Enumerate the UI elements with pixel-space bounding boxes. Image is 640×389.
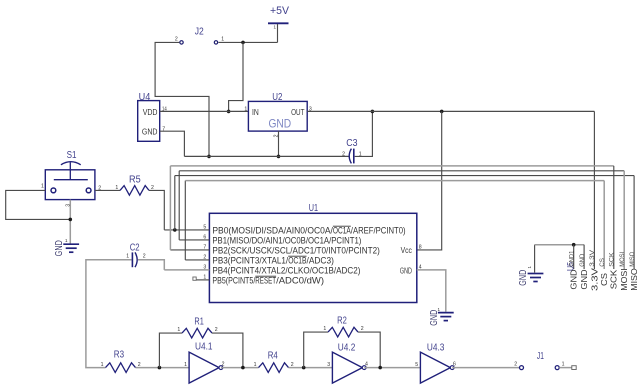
U1 right pin names Vcc GND (400, 245, 413, 275)
svg-text:GND: GND (400, 265, 412, 275)
U1 pin name PB5 row (212, 275, 324, 285)
svg-text:2: 2 (175, 36, 178, 42)
svg-text:PB2(SCK/USCK/SCL/ADC1/T0/INT0/: PB2(SCK/USCK/SCL/ADC1/T0/INT0/PCINT2) (212, 245, 380, 255)
svg-text:/AREF/PCINT0): /AREF/PCINT0) (351, 225, 406, 235)
svg-text:VDD: VDD (143, 107, 158, 117)
svg-text:R4: R4 (268, 351, 278, 362)
wire U4.2 output to U4.3 input (364, 367, 420, 369)
inverter U4.3 (415, 343, 456, 383)
svg-text:2: 2 (361, 326, 364, 332)
wire R3 pin2 to U4.1 input (136, 367, 190, 369)
wire U4.1 output to R4 (221, 367, 259, 369)
wire 3.3V rail down to U5 pin (593, 111, 595, 269)
wire C3 pin1 up to 3.3V rail (355, 111, 373, 156)
svg-text:6: 6 (453, 362, 456, 368)
svg-text:GND: GND (580, 269, 589, 290)
svg-text:1: 1 (115, 185, 118, 191)
svg-text:2: 2 (342, 151, 345, 157)
junction U4.1 out/R1/R4 (241, 366, 245, 370)
svg-text:IN: IN (252, 107, 259, 117)
svg-text:2: 2 (215, 327, 218, 333)
junction U4.2 out/R2 (378, 366, 382, 370)
wire J1 pin1 stub with open end (559, 366, 576, 370)
svg-text:1: 1 (184, 362, 187, 368)
svg-text:PB0(MOSI/DI/SDA/AIN0/OC0A/: PB0(MOSI/DI/SDA/AIN0/OC0A/ (212, 225, 333, 235)
svg-text:1: 1 (562, 362, 565, 368)
capacitor C2 (126, 242, 145, 267)
wire J2 pin2 down to GND rail (155, 42, 209, 156)
U1 left pin numbers (203, 225, 206, 281)
svg-text:CS: CS (600, 273, 609, 286)
svg-text:PB1(MISO/DO/AIN1/OC0B/OC1A/PCI: PB1(MISO/DO/AIN1/OC0B/OC1A/PCINT1) (212, 235, 361, 245)
svg-text:/ADC0/dW): /ADC0/dW) (276, 275, 324, 285)
net CS: U1 pin2 to U5 (185, 181, 604, 269)
net MISO: U1 pin6 to U5 (179, 171, 624, 269)
svg-text:2: 2 (514, 362, 517, 368)
svg-text:RESET: RESET (255, 275, 276, 285)
svg-text:Vcc: Vcc (401, 245, 413, 255)
MCU U1 ATtiny box (209, 203, 416, 303)
junction MOSI riser on pin5 wire (173, 228, 177, 232)
wire +5V net down to U4.VDD/U2.IN (229, 42, 243, 111)
svg-text:CS: CS (600, 258, 606, 267)
wire S1 pin1 loop to junction (6, 190, 71, 219)
U5 pin names rotated (570, 267, 639, 291)
svg-text:1: 1 (527, 266, 532, 269)
inverter U4.1 (184, 342, 224, 383)
wire U1.GND pin4 to ground (417, 270, 446, 312)
svg-text:J1: J1 (537, 351, 544, 362)
svg-text:8: 8 (419, 245, 422, 251)
svg-text:PB5(PCINT5/: PB5(PCINT5/ (212, 275, 255, 285)
wire U4.GND pin7 to GND rail (160, 131, 185, 156)
voltage regulator U2 (244, 92, 311, 138)
U1 pin3 wire PB4 (164, 269, 209, 271)
svg-text:+5V: +5V (270, 5, 290, 17)
junction R4/R2/U4.2 input (302, 366, 306, 370)
U5 net labels small rotated (569, 250, 635, 267)
net MOSI: U1 pin5 to U5 (175, 176, 634, 269)
svg-text:1: 1 (41, 184, 44, 190)
resistor R4 (254, 351, 294, 373)
U1 pin2 wire PB3 (185, 259, 209, 261)
svg-text:1: 1 (254, 362, 257, 368)
svg-text:OC1A: OC1A (333, 225, 351, 235)
svg-text:1: 1 (177, 327, 180, 333)
junction GND1/GND (572, 243, 576, 247)
junction C3 on 3.3V rail (371, 110, 375, 114)
svg-text:OUT: OUT (291, 107, 304, 117)
svg-text:/ADC3): /ADC3) (307, 255, 334, 265)
svg-text:3.3V: 3.3V (590, 250, 596, 267)
svg-text:SCK: SCK (610, 252, 616, 266)
svg-text:1: 1 (126, 253, 129, 259)
svg-text:R1: R1 (194, 317, 204, 328)
svg-text:OC1B: OC1B (288, 255, 306, 265)
3.3V rail wire U2.OUT to right (307, 110, 594, 112)
svg-text:J2: J2 (195, 27, 204, 38)
junction U2.GND on GND rail (277, 155, 281, 159)
svg-text:R2: R2 (337, 316, 347, 327)
ground below U1 (429, 307, 454, 326)
svg-text:U4: U4 (139, 92, 151, 103)
svg-text:1: 1 (101, 362, 104, 368)
U1 pin6 wire PB1 (179, 239, 209, 241)
svg-text:5: 5 (415, 362, 418, 368)
svg-text:MOSI: MOSI (620, 268, 629, 291)
svg-text:GND1: GND1 (569, 250, 575, 267)
svg-text:GND: GND (268, 116, 291, 130)
svg-text:GND: GND (580, 253, 586, 267)
wire C2 pin2 to U1 pin3 PB4 (138, 260, 164, 270)
wire ground to U5 GND pins (535, 244, 585, 246)
svg-text:SCK: SCK (610, 269, 619, 289)
U1 pin1 wire PB5 with open end (193, 277, 210, 280)
svg-text:GND: GND (429, 310, 440, 326)
svg-text:U4.3: U4.3 (427, 343, 445, 354)
svg-text:PB4(PCINT4/XTAL2/CLKO/OC1B/ADC: PB4(PCINT4/XTAL2/CLKO/OC1B/ADC2) (212, 265, 360, 275)
svg-text:S1: S1 (67, 150, 77, 161)
connector J2 (175, 27, 224, 44)
wire S1 pin2 to R5 (95, 189, 120, 191)
svg-text:R3: R3 (114, 350, 125, 361)
svg-text:GND: GND (54, 240, 65, 256)
svg-text:U2: U2 (272, 92, 283, 103)
resistor R2 feedback (304, 316, 381, 368)
IC U4 power gate (74HC14 pwr) (138, 92, 167, 142)
ground below S1 (54, 238, 79, 256)
junction R3/R1/U4.1 input (158, 366, 162, 370)
wire U5 GND pin stub (583, 245, 585, 269)
wire C2 pin1 down to R3 (86, 260, 132, 368)
connector J1 (514, 351, 564, 370)
svg-text:1: 1 (323, 326, 326, 332)
svg-text:GND: GND (518, 270, 529, 286)
junction +5V onto VDD-IN wire (227, 110, 231, 114)
svg-text:2: 2 (143, 254, 146, 260)
junction U1.Vcc riser on 3.3V rail (440, 110, 444, 114)
svg-text:MISO: MISO (630, 251, 636, 266)
resistor R1 feedback (159, 317, 243, 368)
wire R4 pin2 to U4.2 input (289, 367, 333, 369)
inverter U4.2 (327, 343, 368, 383)
U1 pin name PB0 row (212, 225, 405, 235)
svg-text:R5: R5 (129, 175, 141, 186)
svg-text:3.3V: 3.3V (590, 267, 599, 291)
svg-text:1: 1 (244, 106, 247, 112)
wire U2.GND pin2 down to GND rail (278, 131, 280, 156)
svg-text:GND: GND (142, 126, 158, 136)
U1 right pin numbers (419, 245, 422, 271)
GND rail wire U4 to C3 (184, 155, 348, 157)
svg-text:1: 1 (65, 238, 68, 243)
svg-text:U4.1: U4.1 (195, 342, 213, 353)
U1 pin name PB3 row (212, 255, 334, 265)
svg-text:U4.2: U4.2 (338, 343, 356, 354)
wire U4.VDD to U2.IN (160, 110, 249, 112)
svg-text:1: 1 (273, 25, 276, 30)
svg-text:U1: U1 (309, 203, 319, 214)
wire +5V to J2 pin1 net (243, 41, 278, 43)
U1 pin7 wire PB2 (170, 249, 209, 251)
svg-text:3: 3 (327, 362, 330, 368)
junction J2.2 on GND rail (207, 155, 211, 159)
resistor R5 (115, 175, 154, 196)
power +5V supply symbol (268, 5, 290, 42)
svg-text:1: 1 (221, 36, 224, 42)
wire U4.3 output to J1 pin2 (452, 367, 519, 369)
capacitor C3 (342, 138, 362, 163)
wire J2 pin1 to +5V junction (219, 41, 244, 43)
wire U5 GND1 pin stub (573, 245, 575, 269)
svg-text:MISO: MISO (630, 268, 639, 291)
switch S1 (41, 150, 101, 207)
junction S1 pins 1+3 (69, 218, 73, 222)
wire S1 pin3 down to ground (69, 200, 71, 245)
svg-text:4: 4 (365, 362, 368, 368)
junction +5V/J2.1 (241, 41, 245, 45)
ground near U5 (518, 245, 543, 286)
svg-text:C3: C3 (346, 138, 358, 149)
svg-text:GND: GND (570, 269, 579, 290)
resistor R3 (101, 350, 141, 373)
net SCK: U1 pin7 to U5 (170, 166, 613, 269)
wire U1.Vcc pin8 riser (417, 111, 442, 250)
svg-text:PB3(PCINT3/XTAL1/: PB3(PCINT3/XTAL1/ (212, 255, 288, 265)
svg-text:MOSI: MOSI (620, 251, 626, 266)
svg-text:2: 2 (222, 362, 225, 368)
U1 pin5 wire PB0 (164, 229, 209, 231)
wire R5 pin2 to U1 pin5 (149, 190, 164, 230)
svg-text:C2: C2 (130, 242, 140, 253)
